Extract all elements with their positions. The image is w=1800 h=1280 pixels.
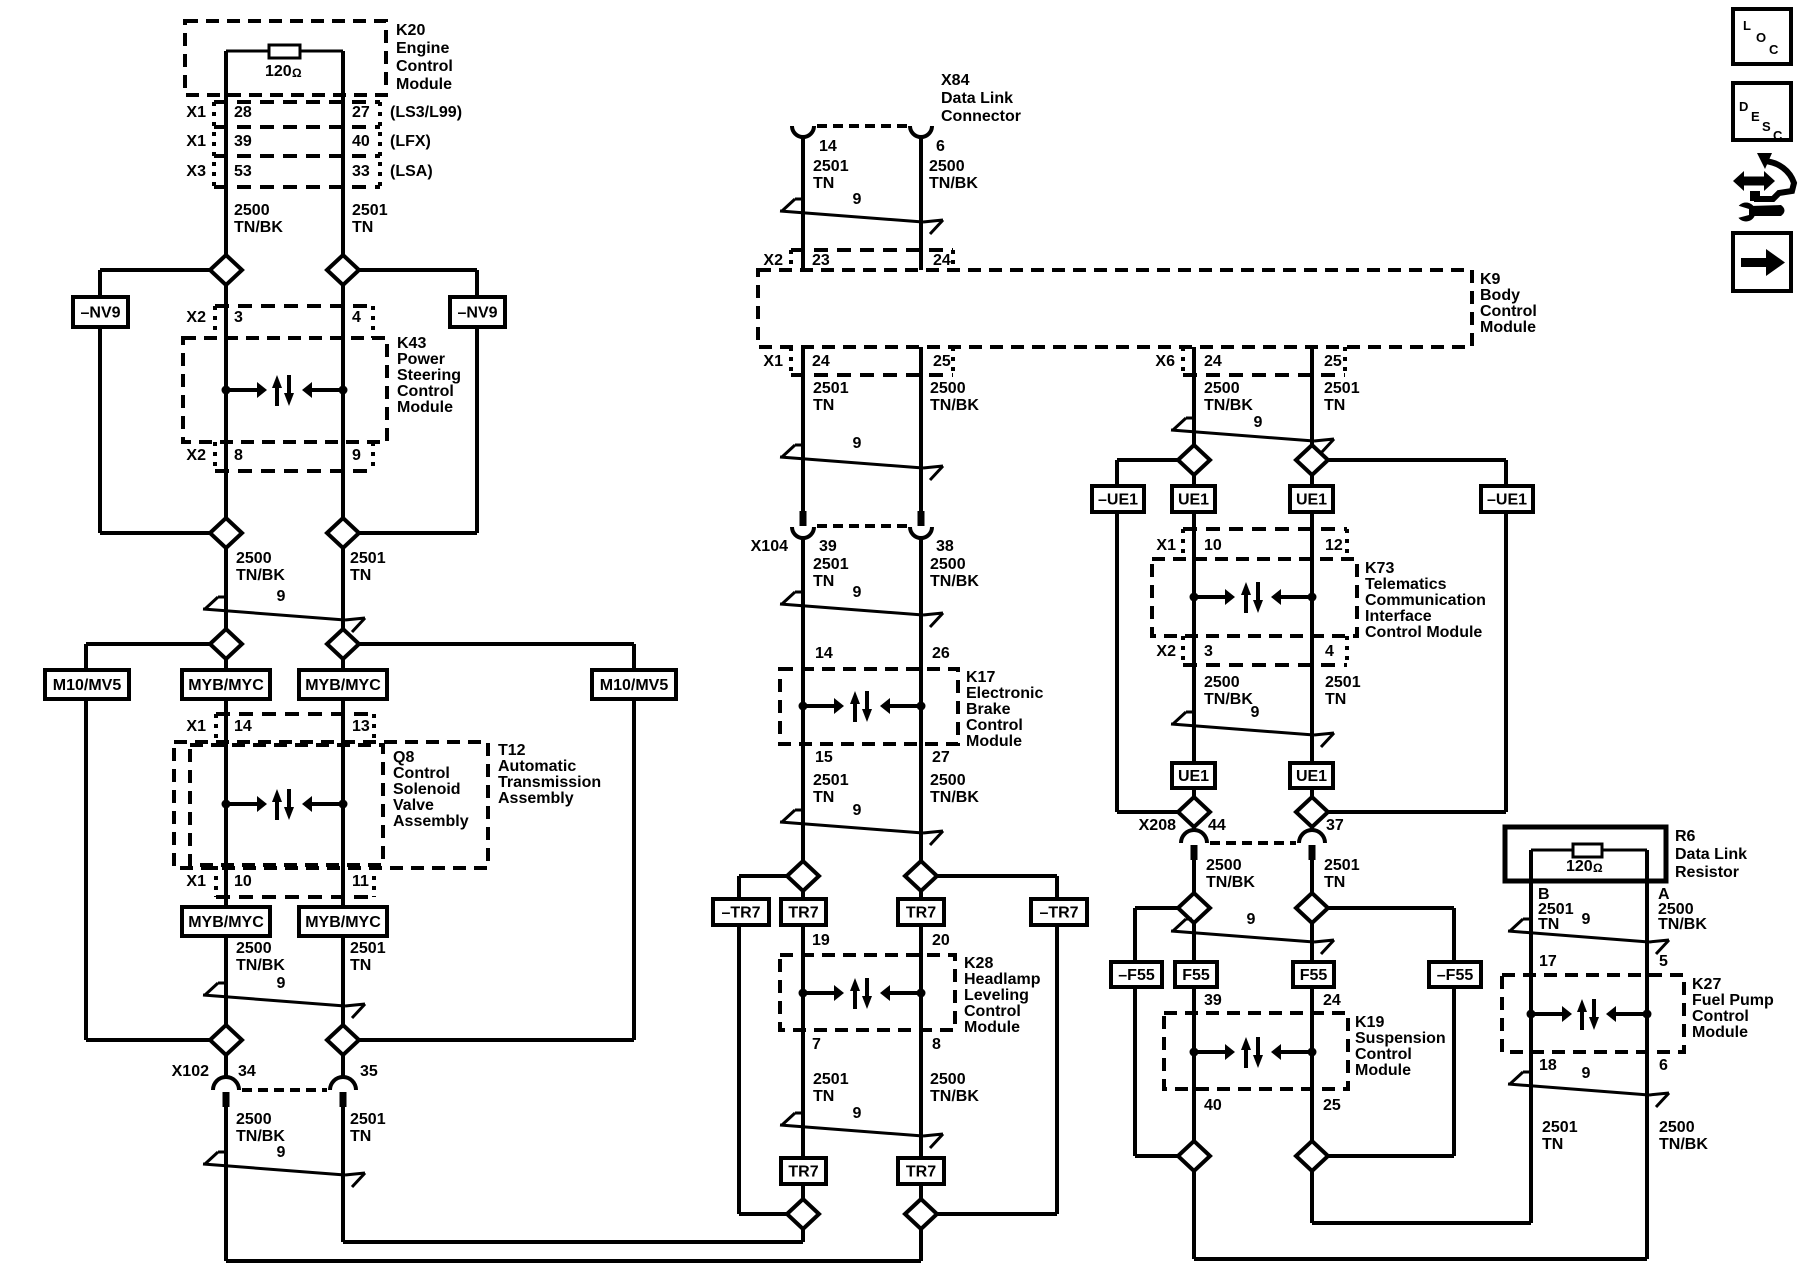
svg-text:Module: Module — [966, 733, 1022, 750]
svg-text:11: 11 — [352, 873, 369, 890]
svg-text:TN/BK: TN/BK — [1658, 916, 1707, 933]
svg-text:Q8: Q8 — [393, 749, 414, 766]
svg-text:TN/BK: TN/BK — [236, 567, 285, 584]
wire 2501 TN bottom link — [343, 1229, 803, 1242]
label wire 2501 TN — [813, 380, 849, 414]
pin 39 / 24 (K19) — [1204, 992, 1341, 1009]
svg-text:6: 6 — [1659, 1057, 1668, 1074]
connector -F55 left — [1111, 962, 1162, 987]
wire resistor loop right R6 — [1602, 849, 1647, 852]
svg-text:X2: X2 — [763, 252, 783, 269]
svg-text:M10/MV5: M10/MV5 — [53, 677, 122, 694]
svg-text:TN/BK: TN/BK — [1206, 874, 1255, 891]
pin 19 / 20 (K28) — [812, 932, 950, 949]
label wire 2500 TN/BK — [236, 940, 285, 974]
svg-text:24: 24 — [933, 252, 951, 269]
connector X104 dashed boundary — [817, 524, 907, 528]
svg-text:Data Link: Data Link — [941, 90, 1013, 107]
svg-text:14: 14 — [234, 718, 252, 735]
svg-text:2500: 2500 — [929, 158, 965, 175]
svg-text:Steering: Steering — [397, 367, 461, 384]
label wire 2500 TN/BK — [234, 202, 283, 236]
label wire 2501 TN — [813, 772, 849, 806]
svg-text:9: 9 — [277, 1144, 286, 1161]
svg-text:X1: X1 — [186, 718, 206, 735]
connector row K43 X2 top — [215, 306, 373, 338]
symbol twisted pair crossing 9 — [203, 588, 365, 632]
svg-text:Data Link: Data Link — [1675, 846, 1747, 863]
svg-text:33: 33 — [352, 163, 370, 180]
pin X2 3 / 4 — [1156, 643, 1334, 660]
svg-text:(LS3/L99): (LS3/L99) — [390, 104, 462, 121]
symbol serial data arrows K19 — [1190, 1037, 1317, 1068]
node splice diamond 2500 TR7 row — [905, 861, 937, 891]
svg-text:–NV9: –NV9 — [80, 305, 120, 322]
connector -NV9 left — [73, 297, 128, 327]
svg-text:25: 25 — [1324, 353, 1342, 370]
svg-text:TN/BK: TN/BK — [929, 175, 978, 192]
svg-text:Control: Control — [1480, 303, 1537, 320]
icon wrench — [1733, 203, 1785, 222]
connector X102 right half (dome and terminal) — [330, 1077, 356, 1107]
svg-text:44: 44 — [1208, 817, 1226, 834]
svg-text:MYB/MYC: MYB/MYC — [305, 914, 381, 931]
node splice diamond 2500 F55 row — [1178, 893, 1210, 923]
connector M10/MV5 right — [592, 670, 676, 699]
svg-text:28: 28 — [234, 104, 252, 121]
svg-text:2501: 2501 — [813, 158, 849, 175]
connector MYB/MYC upper left — [182, 670, 270, 699]
wire NV9 branch left — [100, 270, 210, 533]
svg-text:2501: 2501 — [1324, 857, 1360, 874]
label wire 2500 TN/BK — [1204, 380, 1253, 414]
node splice diamond 2501 bottom right — [1296, 1141, 1328, 1171]
svg-text:120: 120 — [1566, 858, 1593, 875]
svg-text:UE1: UE1 — [1178, 768, 1209, 785]
svg-text:Telematics: Telematics — [1365, 576, 1447, 593]
svg-text:18: 18 — [1539, 1057, 1557, 1074]
connector MYB/MYC upper right — [299, 670, 387, 699]
label wire 2501 TN — [1324, 380, 1360, 414]
symbol twisted pair crossing 9 — [1508, 1065, 1669, 1107]
connector X84 dashed boundary — [817, 124, 907, 128]
svg-text:C: C — [1769, 42, 1779, 57]
pin X1 24 / 25 — [763, 353, 950, 370]
svg-text:14: 14 — [815, 645, 833, 662]
svg-text:2501: 2501 — [350, 550, 386, 567]
svg-text:X102: X102 — [172, 1063, 209, 1080]
module K28 Headlamp Leveling Control Module dashed box — [780, 955, 955, 1030]
svg-text:Module: Module — [1692, 1024, 1748, 1041]
svg-text:TN/BK: TN/BK — [930, 397, 979, 414]
label K27 Fuel Pump Control Module — [1692, 976, 1774, 1041]
svg-text:25: 25 — [1323, 1097, 1341, 1114]
svg-text:Brake: Brake — [966, 701, 1011, 718]
svg-text:TR7: TR7 — [906, 1164, 936, 1181]
label wire 2501 TN — [813, 158, 849, 192]
svg-text:–F55: –F55 — [1437, 967, 1474, 984]
svg-text:X1: X1 — [186, 873, 206, 890]
svg-text:2500: 2500 — [236, 940, 272, 957]
wire 2500 TN/BK bottom link right — [1194, 1257, 1647, 1261]
svg-text:TN: TN — [1324, 397, 1345, 414]
svg-text:TR7: TR7 — [788, 1164, 818, 1181]
svg-text:TN: TN — [350, 1128, 371, 1145]
svg-text:8: 8 — [234, 447, 243, 464]
label wire 2500 TN/BK — [929, 158, 978, 192]
module K19 Suspension Control Module dashed box — [1164, 1013, 1348, 1089]
pin X1 10 / 11 — [186, 873, 369, 890]
svg-text:O: O — [1756, 30, 1766, 45]
pin 18 / 6 (K27) — [1539, 1057, 1668, 1074]
node splice diamond 2500 row4 — [210, 1025, 242, 1055]
wire 2500 TN/BK left bus vertical (ECM branch) — [224, 51, 228, 1261]
svg-text:23: 23 — [812, 252, 830, 269]
label wire 2501 TN — [1325, 674, 1361, 708]
pin X2 23 / 24 — [763, 252, 950, 269]
svg-text:2500: 2500 — [930, 772, 966, 789]
svg-text:TN: TN — [813, 789, 834, 806]
node splice diamond 2501 X208 row — [1296, 797, 1328, 827]
svg-text:Transmission: Transmission — [498, 774, 601, 791]
svg-text:X1: X1 — [186, 133, 206, 150]
svg-text:X1: X1 — [186, 104, 206, 121]
svg-text:MYB/MYC: MYB/MYC — [305, 677, 381, 694]
connector X104 right half (terminal and cup) — [910, 511, 932, 538]
label wire 2501 TN — [352, 202, 388, 236]
pin X6 24 / 25 — [1155, 353, 1341, 370]
wire 2501 TN bottom link right — [1312, 1221, 1531, 1225]
svg-text:K27: K27 — [1692, 976, 1721, 993]
label wire 2500 TN/BK — [1206, 857, 1255, 891]
svg-text:40: 40 — [352, 133, 370, 150]
symbol twisted pair crossing 9 — [203, 975, 365, 1018]
symbol serial data arrows K27 — [1527, 999, 1652, 1030]
connector TR7 lower left — [781, 1158, 826, 1184]
pin X2 3 / 4 — [186, 309, 361, 326]
wire 2500 TN/BK terminal A vertical — [1645, 850, 1649, 1259]
svg-text:K28: K28 — [964, 955, 993, 972]
connector UE1 lower left — [1172, 763, 1215, 788]
connector M10/MV5 left — [45, 670, 129, 699]
svg-text:Module: Module — [1355, 1062, 1411, 1079]
node splice diamond 2500 row3 — [210, 629, 242, 659]
svg-text:TN: TN — [813, 573, 834, 590]
module K73 Telematics Communication Interface Control Module dashed box — [1152, 559, 1357, 636]
wire UE1 branch left — [1117, 460, 1178, 812]
svg-text:2500: 2500 — [1206, 857, 1242, 874]
pin 15 / 27 (K17) — [815, 749, 950, 766]
connector TR7 lower right — [898, 1158, 944, 1184]
connector row K73 X1 — [1183, 529, 1347, 559]
svg-text:39: 39 — [819, 538, 837, 555]
module K9 Body Control Module dashed box — [758, 270, 1472, 347]
svg-text:Module: Module — [397, 399, 453, 416]
svg-text:5: 5 — [1659, 953, 1668, 970]
wire TR7 branch left — [739, 876, 787, 1214]
svg-text:Solenoid: Solenoid — [393, 781, 461, 798]
svg-text:2500: 2500 — [1204, 674, 1240, 691]
pin X1 39 / 40 (LFX) — [186, 133, 430, 150]
svg-text:X2: X2 — [186, 447, 206, 464]
svg-text:Resistor: Resistor — [1675, 864, 1739, 881]
pin X1 10 / 12 — [1156, 537, 1342, 554]
symbol twisted pair crossing 9 — [1508, 911, 1669, 954]
svg-text:2501: 2501 — [352, 202, 388, 219]
svg-text:–UE1: –UE1 — [1098, 492, 1138, 509]
connector UE1 lower right — [1290, 763, 1333, 788]
wire 2500 TN/BK middle bus vertical — [919, 137, 923, 1214]
wire M10/MV5 branch left — [86, 644, 210, 1040]
svg-text:35: 35 — [360, 1063, 378, 1080]
svg-text:2500: 2500 — [1204, 380, 1240, 397]
svg-text:9: 9 — [1254, 414, 1263, 431]
wire M10/MV5 branch right — [359, 644, 634, 1040]
node splice diamond 2500 X208 row — [1178, 797, 1210, 827]
label terminal B wire 2501 TN — [1538, 886, 1574, 933]
pin X1 28 / 27 (LS3/L99) — [186, 104, 462, 121]
svg-text:9: 9 — [352, 447, 361, 464]
svg-text:Electronic: Electronic — [966, 685, 1043, 702]
svg-text:7: 7 — [812, 1036, 821, 1053]
svg-text:9: 9 — [1251, 704, 1260, 721]
icon double arrow with hook arrow — [1733, 153, 1794, 201]
svg-text:TN/BK: TN/BK — [930, 1088, 979, 1105]
connector F55 upper left — [1175, 962, 1217, 987]
svg-text:X3: X3 — [186, 163, 206, 180]
svg-text:2500: 2500 — [930, 556, 966, 573]
svg-text:X2: X2 — [186, 309, 206, 326]
svg-text:Power: Power — [397, 351, 445, 368]
svg-text:Module: Module — [1480, 319, 1536, 336]
node splice diamond 2501 UE1 row — [1296, 445, 1328, 475]
svg-text:TN: TN — [352, 219, 373, 236]
connector X102 dashed boundary — [242, 1088, 327, 1092]
svg-text:TN/BK: TN/BK — [234, 219, 283, 236]
svg-text:9: 9 — [853, 1105, 862, 1122]
node splice diamond 2501 row4 — [327, 1025, 359, 1055]
svg-text:Communication: Communication — [1365, 592, 1486, 609]
svg-text:F55: F55 — [1300, 967, 1328, 984]
wire 2501 TN middle bus vertical — [801, 137, 805, 1214]
svg-text:53: 53 — [234, 163, 252, 180]
symbol twisted pair crossing 9 — [1171, 414, 1334, 453]
node splice diamond 2500 row1 — [210, 255, 242, 285]
label wire 2500 TN/BK — [236, 550, 285, 584]
svg-text:TN/BK: TN/BK — [930, 789, 979, 806]
svg-text:2500: 2500 — [236, 1111, 272, 1128]
svg-text:TN: TN — [1325, 691, 1346, 708]
icon DESC box — [1733, 83, 1791, 143]
svg-text:24: 24 — [1204, 353, 1222, 370]
svg-text:X6: X6 — [1155, 353, 1175, 370]
svg-text:26: 26 — [932, 645, 950, 662]
icon forward arrow box — [1733, 233, 1791, 291]
svg-text:K73: K73 — [1365, 560, 1394, 577]
label K43 Power Steering Control Module — [397, 335, 461, 416]
label wire 2500 TN/BK — [1659, 1119, 1708, 1153]
svg-text:Control: Control — [397, 383, 454, 400]
wire UE1 branch right — [1328, 460, 1506, 812]
pin 40 / 25 (K19) — [1204, 1097, 1341, 1114]
svg-text:–TR7: –TR7 — [721, 905, 760, 922]
svg-text:K20: K20 — [396, 22, 425, 39]
svg-text:2500: 2500 — [236, 550, 272, 567]
svg-text:X1: X1 — [763, 353, 783, 370]
label wire 2500 TN/BK — [1204, 674, 1253, 708]
svg-text:X2: X2 — [1156, 643, 1176, 660]
svg-text:6: 6 — [936, 138, 945, 155]
svg-text:Control: Control — [1692, 1008, 1749, 1025]
svg-text:9: 9 — [853, 191, 862, 208]
svg-text:9: 9 — [853, 584, 862, 601]
svg-text:K17: K17 — [966, 669, 995, 686]
wire F55 branch left — [1135, 908, 1178, 1156]
svg-text:TN/BK: TN/BK — [1204, 691, 1253, 708]
node splice diamond 2500 bottom right — [1178, 1141, 1210, 1171]
svg-text:24: 24 — [812, 353, 830, 370]
svg-text:D: D — [1739, 99, 1748, 114]
symbol serial data arrows K17 — [799, 691, 926, 722]
svg-text:X84: X84 — [941, 72, 970, 89]
wire TR7 branch right — [937, 876, 1057, 1214]
wire 2501 TN right bus vertical — [1310, 347, 1314, 1223]
connector MYB/MYC lower left — [182, 907, 270, 936]
pin 14 / 26 (K17) — [815, 645, 950, 662]
symbol twisted pair crossing 9 — [1171, 911, 1334, 954]
connector row K43 X2 bottom — [215, 442, 373, 471]
svg-text:K19: K19 — [1355, 1014, 1384, 1031]
node splice diamond 2500 bottom — [905, 1199, 937, 1229]
svg-text:14: 14 — [819, 138, 837, 155]
svg-text:–F55: –F55 — [1118, 967, 1155, 984]
svg-text:9: 9 — [853, 435, 862, 452]
connector -TR7 right — [1031, 899, 1087, 925]
label wire 2501 TN — [1542, 1119, 1578, 1153]
node splice diamond 2501 row1 — [327, 255, 359, 285]
label K73 Telematics Communication Interface Control Module — [1365, 560, 1486, 641]
svg-text:3: 3 — [234, 309, 243, 326]
svg-text:Assembly: Assembly — [498, 790, 574, 807]
node splice diamond 2501 TR7 row — [787, 861, 819, 891]
svg-text:TN: TN — [1324, 874, 1345, 891]
svg-text:34: 34 — [238, 1063, 256, 1080]
svg-text:TN: TN — [350, 567, 371, 584]
label Q8 Control Solenoid Valve Assembly — [393, 749, 469, 830]
connector X104 left half (terminal and cup) — [792, 511, 814, 538]
svg-text:TN: TN — [350, 957, 371, 974]
label K19 Suspension Control Module — [1355, 1014, 1446, 1079]
svg-text:39: 39 — [234, 133, 252, 150]
svg-text:8: 8 — [932, 1036, 941, 1053]
svg-text:MYB/MYC: MYB/MYC — [188, 677, 264, 694]
svg-text:Suspension: Suspension — [1355, 1030, 1446, 1047]
pin X1 14 / 13 — [186, 718, 369, 735]
pin 14 / 6 (X84) — [819, 138, 945, 155]
label R6 Data Link Resistor — [1675, 828, 1747, 881]
svg-text:2500: 2500 — [1659, 1119, 1695, 1136]
svg-text:2501: 2501 — [1324, 380, 1360, 397]
connector -F55 right — [1429, 962, 1481, 987]
svg-text:Module: Module — [964, 1019, 1020, 1036]
svg-text:TN: TN — [813, 175, 834, 192]
module K43 Power Steering Control Module dashed box — [183, 338, 387, 442]
svg-text:2500: 2500 — [930, 1071, 966, 1088]
symbol twisted pair crossing 9 — [780, 802, 943, 845]
symbol serial data arrows K73 — [1190, 582, 1317, 613]
label K28 Headlamp Leveling Control Module — [964, 955, 1041, 1036]
label 120 ohm R6 — [1566, 858, 1603, 875]
connector X104 pins 39 / 38 — [751, 538, 954, 555]
connector X84 Data Link Connector left cup — [792, 126, 814, 137]
node splice diamond 2501 bottom — [787, 1199, 819, 1229]
label K9 Body Control Module — [1480, 271, 1537, 336]
wire 2500 TN/BK right bus vertical — [1192, 347, 1196, 1259]
svg-text:19: 19 — [812, 932, 830, 949]
svg-text:3: 3 — [1204, 643, 1213, 660]
svg-text:K43: K43 — [397, 335, 426, 352]
svg-text:24: 24 — [1323, 992, 1341, 1009]
symbol twisted pair crossing 9 — [780, 435, 943, 480]
module K27 Fuel Pump Control Module dashed box — [1502, 975, 1684, 1052]
svg-text:TN/BK: TN/BK — [236, 957, 285, 974]
connector -UE1 left — [1092, 486, 1144, 512]
svg-text:2500: 2500 — [234, 202, 270, 219]
svg-text:TN: TN — [813, 1088, 834, 1105]
svg-text:TN/BK: TN/BK — [1659, 1136, 1708, 1153]
label wire 2500 TN/BK — [930, 1071, 979, 1105]
svg-text:R6: R6 — [1675, 828, 1696, 845]
svg-text:9: 9 — [277, 588, 286, 605]
svg-text:13: 13 — [352, 718, 370, 735]
svg-text:S: S — [1762, 119, 1771, 134]
svg-text:MYB/MYC: MYB/MYC — [188, 914, 264, 931]
connector F55 upper right — [1293, 962, 1334, 987]
svg-text:F55: F55 — [1182, 967, 1210, 984]
svg-text:Headlamp: Headlamp — [964, 971, 1041, 988]
svg-text:Assembly: Assembly — [393, 813, 469, 830]
svg-text:4: 4 — [1325, 643, 1334, 660]
label wire 2501 TN — [813, 556, 849, 590]
resistor 120 ohm (in K20) — [269, 45, 300, 58]
svg-text:TN: TN — [813, 397, 834, 414]
svg-text:–TR7: –TR7 — [1039, 905, 1078, 922]
wire NV9 branch right — [359, 270, 477, 533]
connector X208 pins 44 / 37 — [1139, 817, 1344, 834]
svg-text:40: 40 — [1204, 1097, 1222, 1114]
svg-text:UE1: UE1 — [1296, 492, 1327, 509]
connector X208 dashed boundary — [1210, 841, 1296, 845]
svg-text:L: L — [1743, 18, 1751, 33]
node splice diamond 2501 row2 — [327, 518, 359, 548]
connector UE1 upper right — [1290, 486, 1333, 512]
svg-text:37: 37 — [1326, 817, 1344, 834]
svg-text:2501: 2501 — [350, 940, 386, 957]
svg-text:2500: 2500 — [930, 380, 966, 397]
svg-text:E: E — [1751, 109, 1760, 124]
svg-text:Valve: Valve — [393, 797, 434, 814]
svg-text:25: 25 — [933, 353, 951, 370]
symbol serial data arrows K28 — [799, 978, 926, 1009]
connector row T12 X1 top — [216, 714, 374, 742]
icon LOC box — [1733, 9, 1791, 64]
connector X84 right cup — [910, 126, 932, 137]
connector row K9 X6 — [1183, 347, 1345, 375]
connector row K73 X2 — [1183, 636, 1347, 665]
svg-text:Ω: Ω — [1593, 861, 1603, 875]
wire resistor loop right — [300, 50, 343, 53]
wire resistor loop left R6 — [1531, 849, 1573, 852]
